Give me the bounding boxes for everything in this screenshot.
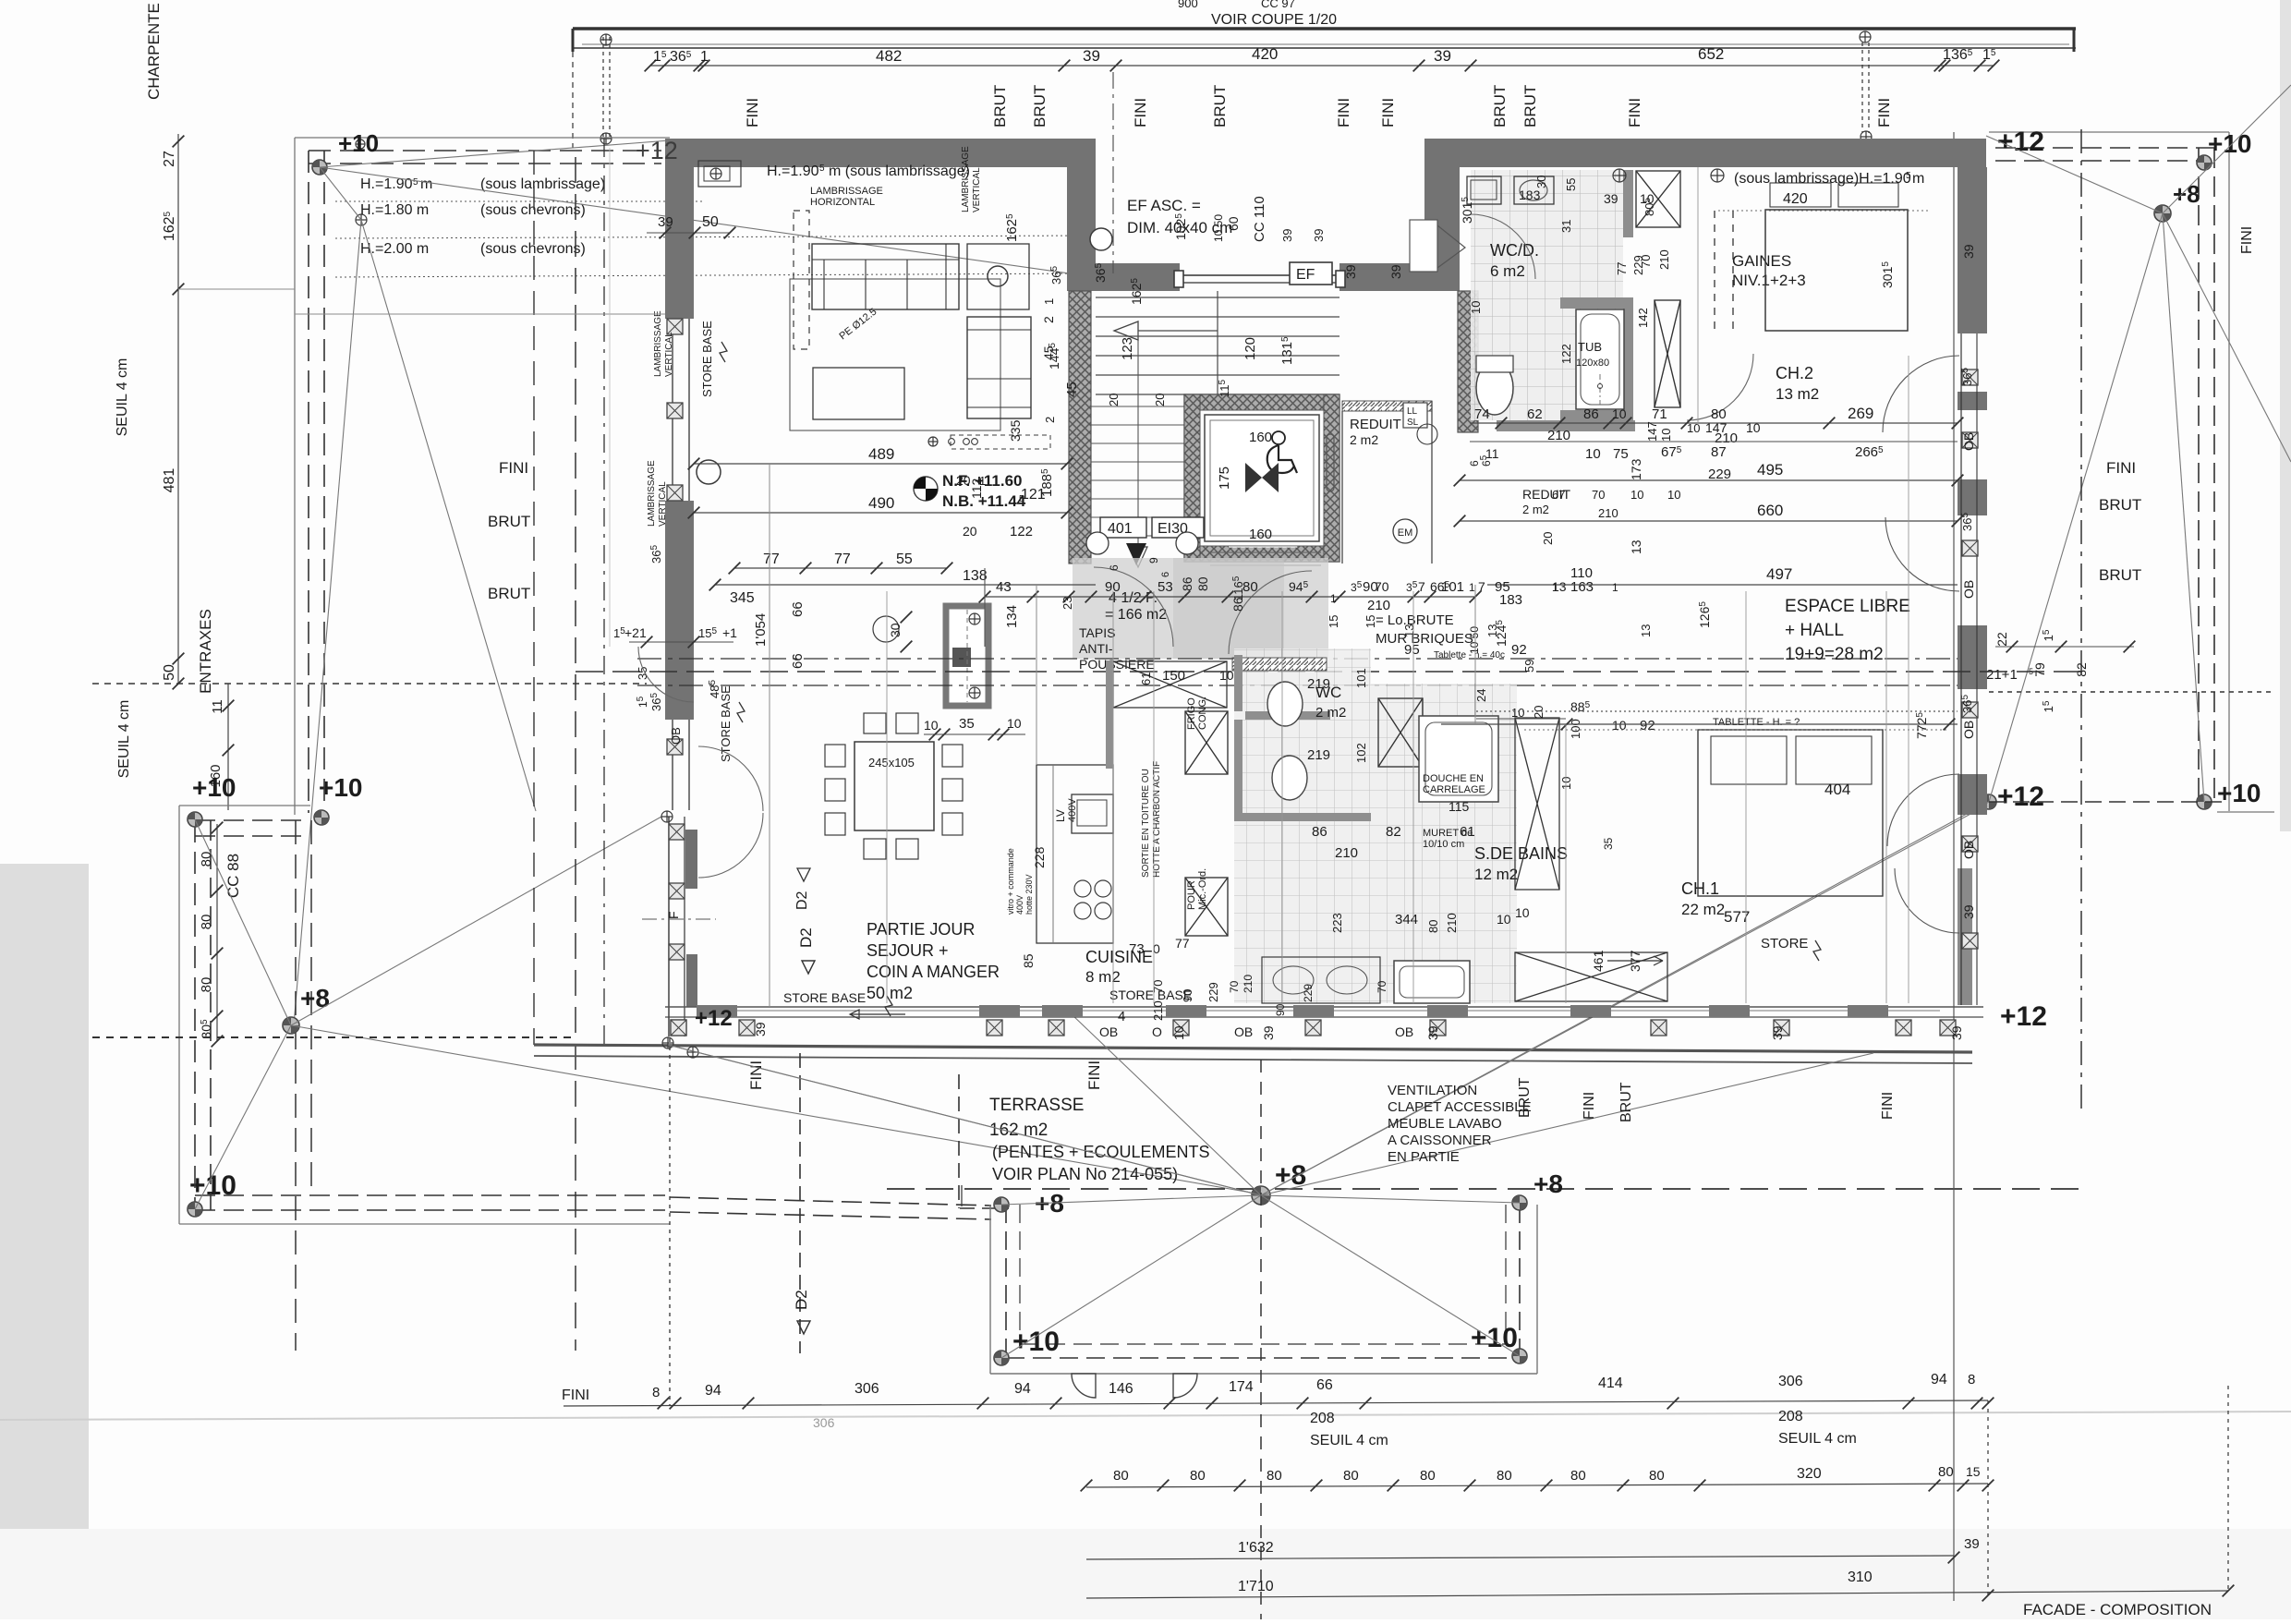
svg-text:162 m2: 162 m2 [989,1121,1048,1140]
top-left lavabo [698,161,741,187]
svg-text:82: 82 [1386,824,1401,840]
svg-text:210: 210 [1242,975,1255,993]
svg-text:80: 80 [199,977,214,993]
svg-text:+12: +12 [695,1006,733,1031]
svg-text:400V: 400V [1015,895,1024,915]
svg-text:306: 306 [855,1381,879,1397]
door bowtie [1245,463,1262,492]
svg-text:OB: OB [1234,1024,1253,1039]
WC/D bottom wall [1497,420,1635,431]
svg-text:FINI: FINI [1335,98,1352,127]
svg-text:7: 7 [1478,579,1485,594]
svg-text:CONG.: CONG. [1197,697,1208,730]
svg-text:10: 10 [1511,706,1524,720]
svg-text:229: 229 [1302,984,1315,1002]
svg-text:+12: +12 [2000,1001,2047,1032]
svg-text:59: 59 [1522,660,1536,673]
svg-text:61: 61 [1139,673,1153,685]
svg-text:+8: +8 [300,984,330,1012]
svg-text:414: 414 [1598,1376,1623,1391]
NF/NB level symbol [914,477,938,501]
svg-text:BRUT: BRUT [991,85,1009,127]
svg-text:102: 102 [1354,743,1368,763]
dashed baseline y740 [92,683,647,685]
svg-text:D2: D2 [797,927,815,948]
svg-text:183: 183 [1519,188,1541,202]
svg-text:80: 80 [1195,576,1210,591]
svg-text:39: 39 [1343,264,1358,279]
svg-text:660: 660 [1757,502,1783,519]
svg-text:61: 61 [1460,824,1475,840]
svg-text:74: 74 [1474,406,1490,422]
svg-text:31: 31 [1559,220,1573,233]
svg-text:210: 210 [1657,249,1671,270]
svg-text:77: 77 [763,551,780,567]
toilet WC/D [1476,361,1513,415]
svg-text:80: 80 [1420,1468,1436,1484]
svg-text:219: 219 [1307,676,1330,692]
svg-text:F: F [666,911,681,919]
svg-text:1: 1 [1042,298,1056,305]
svg-text:123: 123 [1120,337,1135,360]
svg-text:SEUIL 4 cm: SEUIL 4 cm [115,358,130,437]
svg-text:= 166 m2: = 166 m2 [1105,607,1167,623]
svg-text:22: 22 [1994,632,2009,647]
svg-text:8: 8 [652,1385,660,1400]
svg-text:N.B. +11.44: N.B. +11.44 [942,492,1026,510]
svg-text:210: 210 [1598,506,1618,520]
svg-text:150: 150 [1162,668,1185,684]
svg-text:80: 80 [1267,1468,1282,1484]
svg-text:77: 77 [834,551,851,567]
svg-text:66: 66 [1316,1377,1333,1393]
svg-text:92: 92 [1640,718,1655,733]
svg-text:EF ASC. =: EF ASC. = [1127,197,1201,214]
svg-text:134: 134 [1004,605,1020,628]
svg-text:90: 90 [1105,579,1121,595]
hatched wall left of WC/D [1458,291,1478,432]
svg-text:23: 23 [1061,597,1074,610]
svg-text:147: 147 [1645,421,1659,442]
svg-text:10: 10 [1667,488,1680,502]
terrace retaining double line [534,1045,1972,1052]
svg-text:+12: +12 [1997,782,2044,812]
svg-text:53: 53 [1158,579,1173,595]
svg-text:+10: +10 [319,773,363,802]
svg-text:80: 80 [1497,1468,1512,1484]
svg-text:10: 10 [1515,905,1530,920]
svg-text:94: 94 [1931,1372,1947,1388]
svg-text:70: 70 [1376,980,1388,993]
svg-text:OB: OB [1961,721,1976,739]
svg-text:120x80: 120x80 [1576,358,1609,369]
svg-text:70: 70 [1375,579,1389,594]
svg-text:VERTICAL: VERTICAL [664,332,674,377]
svg-text:10: 10 [1559,777,1573,790]
east wall upper [1958,167,1987,333]
svg-text:497: 497 [1766,565,1792,583]
svg-text:A CAISSONNER: A CAISSONNER [1388,1133,1492,1148]
svg-text:O: O [1152,1024,1162,1039]
svg-text:138: 138 [963,568,988,584]
landing below elevator [1210,551,1321,553]
right bottom verticals [1987,1400,1989,1595]
sofa 1 [812,244,959,309]
svg-text:121: 121 [1021,487,1046,503]
svg-text:5: 5 [819,164,825,174]
svg-text:10 50: 10 50 [1212,214,1225,242]
svg-text:20: 20 [1153,394,1167,406]
svg-text:13: 13 [1629,539,1643,554]
svg-text:FINI: FINI [1379,98,1397,127]
svg-text:SL: SL [1407,418,1419,428]
svg-text:70: 70 [1592,488,1605,502]
svg-text:STORE BASE: STORE BASE [783,990,866,1005]
svg-text:147: 147 [1705,420,1727,435]
svg-text:345: 345 [730,590,755,606]
svg-text:22 m2: 22 m2 [1681,901,1725,918]
svg-text:115: 115 [1449,799,1470,814]
svg-text:306: 306 [1778,1374,1803,1389]
svg-text:BRUT: BRUT [1491,85,1509,127]
svg-text:80: 80 [199,915,214,930]
svg-text:+1: +1 [722,625,737,640]
svg-text:122: 122 [1010,524,1033,539]
svg-text:80: 80 [1649,1468,1665,1484]
svg-text:39: 39 [1604,191,1618,206]
svg-text:CARRELAGE: CARRELAGE [1423,784,1485,795]
svg-text:m: m [1912,171,1924,187]
svg-text:1: 1 [1612,581,1618,594]
side table + lamp [967,244,1029,309]
svg-text:1: 1 [1552,581,1558,594]
svg-text:6: 6 [1160,572,1171,577]
svg-text:55: 55 [896,551,913,567]
svg-text:62: 62 [1527,406,1543,422]
401 / EI30 boxes [1100,517,1146,538]
svg-text:hotte 230V: hotte 230V [1024,874,1034,915]
svg-text:Mic.-Ord.: Mic.-Ord. [1197,868,1208,910]
svg-text:2 m2: 2 m2 [1522,503,1549,516]
svg-text:OB: OB [1961,841,1976,859]
svg-text:66: 66 [790,601,806,617]
svg-text:H.=1.90: H.=1.90 [767,164,819,179]
svg-text:175: 175 [1217,467,1232,490]
svg-text:208: 208 [1310,1411,1335,1426]
svg-text:80: 80 [1113,1468,1129,1484]
niche vertical leg [1067,167,1096,291]
kitchen [1036,765,1113,943]
svg-text:208: 208 [1778,1409,1803,1424]
svg-text:420: 420 [1252,45,1278,63]
svg-text:+10: +10 [1012,1327,1060,1357]
svg-text:D2: D2 [794,891,810,910]
svg-text:39: 39 [1961,904,1976,919]
svg-text:SEUIL 4 cm: SEUIL 4 cm [1778,1431,1857,1447]
svg-text:10: 10 [1612,406,1627,421]
svg-text:8 m2: 8 m2 [1085,968,1121,986]
svg-text:CH.1: CH.1 [1681,879,1719,898]
svg-text:70: 70 [1151,980,1165,993]
svg-text:4: 4 [1118,1009,1125,1024]
svg-text:BRUT: BRUT [1618,1082,1634,1122]
svg-text:66: 66 [790,653,806,669]
svg-text:344: 344 [1395,912,1418,927]
svg-text:35: 35 [1602,837,1615,850]
svg-text:vitro + commande: vitro + commande [1006,848,1015,915]
svg-text:39: 39 [1425,1025,1440,1040]
svg-text:REDUIT: REDUIT [1350,417,1401,432]
living room rug [790,279,1000,430]
svg-text:10: 10 [1171,1025,1186,1040]
svg-text:2 m2: 2 m2 [1315,705,1346,721]
bath bottom fixtures [1394,961,1470,1003]
svg-text:13 m2: 13 m2 [1776,385,1819,403]
svg-text:30: 30 [1534,176,1548,188]
svg-text:LL: LL [1407,406,1418,417]
long thin horizontals upper area [295,313,665,315]
small symbols below sofa [928,437,938,446]
svg-text:39: 39 [1388,264,1403,279]
(sous lambrissage) right [1613,169,1626,182]
svg-text:10 50: 10 50 [1468,626,1481,654]
top dimension chain [650,65,1994,67]
svg-text:LAMBRISSAGE: LAMBRISSAGE [810,186,883,197]
svg-text:(sous chevrons): (sous chevrons) [480,202,586,218]
svg-text:15: 15 [1364,615,1377,628]
top wall right wing [1424,139,1986,167]
svg-text:1: 1 [700,49,709,65]
svg-text:VOIR COUPE 1/20: VOIR COUPE 1/20 [1211,12,1337,28]
svg-text:OB: OB [669,727,683,745]
svg-text:80: 80 [1426,920,1440,933]
svg-text:60: 60 [1226,216,1241,231]
diagonal from building SW to terrace [668,1045,1261,1195]
svg-text:489: 489 [868,445,894,463]
niche ledge left [1067,263,1180,291]
center node N2 with diagonals [1252,1186,1270,1205]
svg-text:11: 11 [210,699,225,714]
svg-text:320: 320 [1797,1466,1822,1482]
right diagonals [1986,136,2163,213]
fireplace [946,606,988,706]
WC/D door arc [1471,214,1535,279]
svg-text:CLAPET ACCESSIBLE: CLAPET ACCESSIBLE [1388,1099,1532,1115]
svg-text:+12: +12 [636,137,678,164]
svg-text:2: 2 [1043,417,1057,423]
svg-text:10: 10 [1497,912,1511,927]
lower-left terrace [179,805,310,806]
svg-text:30: 30 [888,623,903,637]
svg-text:LAMBRISSAGE: LAMBRISSAGE [961,146,971,212]
svg-text:87: 87 [1711,444,1727,460]
svg-text:FINI: FINI [1880,1092,1896,1120]
svg-text:10: 10 [1612,718,1627,733]
upper-left terrace outline [295,137,670,139]
svg-text:70: 70 [1639,255,1653,268]
svg-text:+8: +8 [2173,180,2200,208]
svg-text:PARTIE JOUR: PARTIE JOUR [867,920,975,939]
svg-text:FINI: FINI [744,98,761,127]
svg-text:SEUIL 4 cm: SEUIL 4 cm [116,700,132,779]
svg-text:95: 95 [1495,579,1510,595]
svg-text:94: 94 [1014,1381,1031,1397]
svg-text:120: 120 [1242,337,1258,360]
svg-text:6 m2: 6 m2 [1490,262,1525,280]
svg-text:10/10 cm: 10/10 cm [1423,839,1464,850]
svg-text:BRUT: BRUT [2099,566,2141,584]
svg-text:70: 70 [1228,980,1241,993]
svg-text:24: 24 [1474,689,1488,702]
svg-text:TABLETTE - H. = ?: TABLETTE - H. = ? [1713,717,1800,728]
svg-text:39: 39 [1083,47,1100,65]
svg-text:1'054: 1'054 [753,613,769,647]
right small dim cluster [1995,646,2134,648]
svg-text:TUB: TUB [1578,340,1602,354]
svg-text:39: 39 [1261,1025,1276,1040]
entry mat [1073,558,1328,659]
svg-text:20: 20 [1107,394,1121,406]
svg-text:210: 210 [1151,1000,1165,1021]
svg-text:39: 39 [1280,229,1294,242]
svg-text:39: 39 [1434,47,1451,65]
svg-text:86: 86 [1583,406,1599,422]
WC/D tiled floor [1471,170,1623,420]
svg-text:m (sous lambrissage): m (sous lambrissage) [829,164,970,179]
svg-text:39: 39 [1312,229,1326,242]
svg-text:H.=2.00 m: H.=2.00 m [360,241,429,257]
svg-text:163: 163 [1570,579,1594,595]
CH2 bed + boxes [1636,171,1680,227]
svg-text:9: 9 [1147,557,1160,564]
svg-text:210: 210 [1335,845,1358,861]
svg-text:SORTIE EN TOITURE OU: SORTIE EN TOITURE OU [1141,769,1151,878]
svg-text:+10: +10 [338,129,379,157]
svg-text:482: 482 [876,47,902,65]
long dashed axis [576,671,2081,673]
svg-text:MUR BRIQUES: MUR BRIQUES [1376,631,1473,647]
svg-text:19+9=28 m2: 19+9=28 m2 [1785,645,1884,664]
svg-text:FINI: FINI [2239,226,2255,254]
svg-text:335: 335 [1008,419,1023,442]
niche ledge right [1339,263,1424,291]
svg-text:229: 229 [1206,982,1220,1002]
svg-text:400V: 400V [1067,798,1078,822]
svg-text:20: 20 [963,524,977,539]
top wall left wing [665,139,1096,167]
svg-text:142: 142 [1636,308,1650,328]
svg-text:S.DE BAINS: S.DE BAINS [1474,844,1568,863]
svg-text:210: 210 [1445,913,1459,933]
svg-text:173: 173 [1629,458,1643,480]
svg-text:HORIZONTAL: HORIZONTAL [810,197,875,208]
svg-text:43: 43 [996,579,1012,595]
EF window in niche [1180,274,1339,276]
svg-text:(sous lambrissage)H.=1.90: (sous lambrissage)H.=1.90 [1734,171,1911,187]
svg-text:FINI: FINI [2106,459,2136,477]
left 80 chain [216,824,218,1041]
svg-text:45: 45 [1041,345,1056,360]
svg-text:BRUT: BRUT [1521,85,1539,127]
svg-text:FINI: FINI [1875,98,1893,127]
svg-text:50: 50 [162,664,177,681]
svg-text:LAMBRISSAGE: LAMBRISSAGE [653,310,663,377]
svg-text:10: 10 [1659,429,1673,442]
right terrace [1989,131,2229,133]
svg-text:D2: D2 [793,1290,810,1310]
dim lines living [694,463,1067,465]
svg-text:+8: +8 [1533,1170,1563,1198]
top guide dashed verticals [572,52,574,148]
svg-text:VENTILATION: VENTILATION [1388,1083,1477,1098]
entry door arcs [1094,567,1173,647]
CH.2 bed [1765,210,1908,331]
svg-text:FINI: FINI [1132,98,1149,127]
svg-text:10: 10 [1630,488,1643,502]
svg-text:BRUT: BRUT [488,585,530,602]
right wing pier [1424,167,1460,291]
svg-text:1'710: 1'710 [1238,1579,1274,1594]
coarse dotted line y1123 [92,1036,576,1038]
door arcs west [638,647,694,702]
dining table [855,742,934,830]
svg-text:404: 404 [1824,781,1850,798]
svg-text:OB: OB [1961,432,1976,451]
svg-text:310: 310 [1848,1569,1873,1585]
chain 1 y1518 [564,1400,1988,1406]
svg-text:MEUBLE LAVABO: MEUBLE LAVABO [1388,1116,1502,1132]
svg-text:13: 13 [1639,624,1653,637]
svg-text:80: 80 [199,852,214,867]
svg-text:OB: OB [1099,1024,1118,1039]
small guide verticals interior [984,568,986,647]
protrusion lower terrace [989,1205,991,1374]
svg-text:20: 20 [1541,532,1555,545]
svg-text:39: 39 [753,1022,768,1036]
svg-text:FINI: FINI [499,459,528,477]
svg-text:90: 90 [1274,1003,1287,1016]
svg-text:160: 160 [1249,430,1272,445]
svg-text:NIV.1+2+3: NIV.1+2+3 [1732,272,1806,289]
svg-text:+21: +21 [624,625,647,640]
chain 3 1632 [1086,1556,1954,1559]
svg-text:6: 6 [1108,564,1121,571]
terrace diagonals upper-left [320,167,1096,277]
svg-text:+10: +10 [1471,1323,1518,1353]
svg-text:50: 50 [702,214,719,230]
svg-text:652: 652 [1698,45,1724,63]
shower [1419,716,1498,802]
svg-text:2 m2: 2 m2 [1350,432,1378,447]
svg-text:ENTRAXES: ENTRAXES [197,609,214,694]
svg-text:+12: +12 [1997,127,2044,157]
svg-text:80: 80 [1190,1468,1206,1484]
stair treads upper flight [1096,297,1339,298]
svg-text:ANTI-: ANTI- [1079,641,1113,656]
svg-text:STORE BASE: STORE BASE [700,321,714,397]
svg-text:20: 20 [1532,706,1546,719]
hall dotted tablette line [1476,710,1958,712]
svg-text:DOUCHE EN: DOUCHE EN [1423,773,1484,784]
svg-text:POUR: POUR [1186,880,1197,910]
svg-text:2: 2 [1041,316,1056,323]
sofa 2 [967,317,1031,418]
svg-text:LV: LV [1054,809,1067,822]
svg-text:BRUT: BRUT [2099,496,2141,514]
svg-text:15: 15 [1327,615,1340,628]
elevator shaft outer [1184,394,1339,562]
svg-text:401: 401 [1108,521,1133,537]
